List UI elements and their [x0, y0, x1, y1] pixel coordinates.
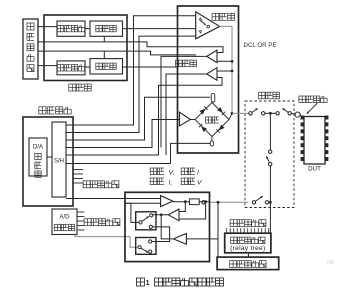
wire PMU input 2 — [125, 202, 161, 204]
wire event pass line A — [38, 42, 223, 53]
level set box 电平设置 — [23, 117, 73, 206]
diode top-right — [217, 107, 223, 113]
timer outer box 定时器 — [44, 15, 127, 81]
junction dot force a — [184, 200, 187, 203]
diode top-left — [199, 109, 205, 115]
label force V measure I 强制V 测量I — [150, 168, 157, 175]
wire switch1 vertical tie — [125, 202, 131, 204]
junction dot relay mid — [269, 112, 272, 115]
junction dot comp1 tap — [231, 60, 234, 63]
svg-text:D/A: D/A — [33, 145, 43, 151]
event generator box 事件发生器 — [23, 19, 38, 79]
relay switch 3 circle a — [269, 150, 272, 153]
sample hold box S/H — [52, 122, 66, 197]
wire sense amp out — [152, 214, 169, 216]
wire TDR vertical — [217, 202, 219, 257]
wire vernier1-formatter1 — [85, 28, 90, 30]
wire event pass line B — [38, 51, 196, 55]
svg-text:DCL OR PE: DCL OR PE — [244, 42, 277, 49]
wire measure amp input — [186, 238, 218, 240]
wire S/H level 1 to driver — [66, 16, 196, 125]
comparator label 比较器 — [176, 60, 183, 67]
relay switch 1 circle b — [262, 112, 265, 115]
junction dot relay bottom — [269, 201, 272, 204]
wire relay mid vertical lower — [269, 166, 271, 202]
wire S/H level 6 join load bottom — [66, 163, 171, 165]
test pin arrow — [307, 103, 317, 113]
svg-text:1: 1 — [146, 280, 150, 287]
wire formatter2 output — [123, 66, 178, 68]
svg-text:S/H: S/H — [54, 159, 64, 165]
switch1 throw circle b — [149, 225, 152, 228]
PMU output terminal circle — [202, 201, 205, 204]
wire PMU input 1 — [66, 198, 161, 200]
wire bridge top to capsule — [211, 101, 214, 103]
caption 图1 测试设备典型框图 — [137, 278, 145, 286]
wire comparator2 input tap — [217, 70, 232, 72]
driver delta symbol — [199, 18, 201, 20]
switch1 common circle — [139, 221, 142, 224]
wire relay mid — [265, 112, 276, 114]
level set label 电平设置 — [39, 107, 46, 114]
switch1 throw circle a — [150, 214, 153, 217]
relay switch 4 circle a — [252, 201, 255, 204]
DUT chip body — [304, 117, 325, 165]
label to other channels 2 至其他通道 — [84, 219, 91, 226]
time vernier box 1 时间微调 — [57, 21, 85, 36]
wire S/H level 2 to driver — [66, 36, 196, 132]
svg-text:V,: V, — [169, 169, 175, 176]
label force I measure V 强制I 测量V — [150, 178, 157, 185]
relay switch 2 circle b — [288, 112, 291, 115]
wire S/H level 5 to comparator 2 — [66, 78, 222, 156]
wire feedback 2 — [179, 202, 206, 219]
label to other channels 1 至其他通道 — [83, 181, 90, 188]
wire driver output — [220, 26, 232, 113]
wire relay mid vertical upper — [269, 113, 271, 150]
formatter box 1 格式化 — [90, 21, 123, 36]
wire pin to relay — [232, 112, 249, 114]
wire switch1 throw b — [152, 227, 170, 242]
wire bridge to pin node — [229, 113, 232, 119]
svg-text:DUT: DUT — [308, 166, 321, 173]
relay switch 1 circle a — [249, 112, 252, 115]
junction dot comp2 tap — [231, 70, 234, 73]
DAC box D/A转换器 — [29, 138, 47, 176]
junction dot sense out — [160, 213, 163, 216]
wire sense down — [161, 215, 173, 239]
svg-text:V: V — [197, 179, 203, 186]
wire relay bottom down to relay tree — [269, 202, 271, 233]
relay switch 4 circle b — [265, 201, 268, 204]
test pin node circle — [295, 112, 300, 117]
TDR box 时域反射计 — [217, 257, 279, 270]
comparator 2 — [207, 68, 217, 81]
wire relay tree to TDR — [247, 253, 249, 257]
PMU box — [125, 192, 210, 261]
relay tree box 继电保护树 — [225, 233, 271, 253]
load bottom current source — [210, 141, 213, 146]
switch2 throw circle b — [149, 250, 152, 253]
wire comparator1 output — [161, 56, 207, 147]
junction dot pin node — [231, 112, 234, 115]
clamp amp triangle — [180, 112, 191, 126]
wire PMU force to relay row — [210, 201, 249, 203]
svg-text:TM: TM — [326, 260, 333, 266]
wire formatter1 output — [123, 28, 196, 30]
comparator 1 — [207, 50, 217, 63]
wire load bottom to S/H level — [171, 143, 211, 163]
driver op-amp 驱动器 — [196, 12, 220, 39]
label to other channels 3 至其他通道 — [230, 220, 237, 227]
junction dot TDR tap — [217, 201, 220, 204]
switch2 throw circle a — [149, 240, 152, 243]
wire DAC to S/H — [47, 156, 52, 158]
driver nabla symbol — [199, 31, 201, 33]
relay label 继电器 — [259, 92, 266, 99]
relay switch 1 lever — [252, 109, 257, 113]
switch2 lever — [141, 248, 148, 252]
PMU switch box 2 — [136, 238, 156, 255]
relay dashed box 继电器 — [245, 101, 294, 208]
junction dot force b — [204, 200, 207, 203]
switch2 common circle — [138, 246, 141, 249]
PMU sense amp — [168, 209, 179, 221]
wire event to vernier1 — [38, 26, 57, 28]
PMU switch box 1 — [136, 212, 156, 230]
wire stub B to formatter2 — [103, 51, 105, 59]
wire bridge bottom to capsule — [211, 137, 213, 141]
PMU force amp — [161, 196, 173, 207]
wire vernier2-formatter2 — [85, 66, 90, 68]
formatter box 2 格式化 — [90, 59, 123, 74]
wire PMU force output — [173, 201, 190, 203]
relay switch 2 lever — [283, 109, 288, 113]
svg-text:I,: I, — [169, 179, 173, 186]
ADC box A/D转换器 — [52, 209, 77, 235]
relay switch 3 circle b — [269, 163, 272, 166]
wire S/H level 4 to clamp amp — [66, 120, 180, 148]
load bridge diamond 负载 — [195, 103, 229, 137]
PMU measure amp — [173, 234, 186, 245]
wire comparator2 output — [166, 74, 207, 155]
diode bottom-right — [219, 125, 225, 131]
time vernier box 2 时间微调 — [57, 61, 85, 75]
wire level to switch1 — [131, 203, 139, 222]
driver wiper circle — [207, 25, 210, 28]
pin electronics box — [178, 6, 239, 153]
relay switch 4 lever — [255, 196, 262, 201]
DUT pins right — [325, 116, 328, 120]
diode bottom-left — [201, 126, 207, 132]
svg-text:I: I — [197, 169, 199, 176]
relay tree comb lines — [226, 228, 228, 233]
test pin label 测试引脚 — [299, 96, 306, 103]
wire relay bottom to junction — [269, 201, 271, 203]
wire stub A to formatter1 — [103, 36, 105, 42]
wire force resistor out — [199, 201, 209, 203]
switch1 lever — [142, 217, 149, 222]
wire relay to test pin node — [291, 112, 295, 115]
wire clamp amp to bridge — [190, 119, 195, 121]
timer label 定时器 — [69, 84, 76, 91]
wire event to vernier2 — [38, 65, 57, 67]
stub lines to other channels 1 — [73, 169, 83, 171]
relay switch 3 lever — [267, 157, 270, 163]
PMU sense resistor — [190, 199, 200, 205]
wire ADC measure line — [75, 235, 138, 248]
stub lines to other channels 2 — [77, 211, 85, 213]
svg-text:(relay tree): (relay tree) — [230, 245, 265, 252]
wire test pin node to DUT — [300, 115, 304, 117]
load top current source — [211, 93, 215, 102]
wire feedback 1 — [179, 202, 185, 212]
wire S/H level 3 to load top source — [66, 97, 210, 140]
driver wiper arrow — [201, 21, 206, 25]
svg-text:A/D: A/D — [59, 215, 70, 221]
driver label 驱动器 — [212, 13, 219, 20]
DUT pins left — [301, 116, 304, 120]
wire comparator1 input tap — [217, 60, 232, 62]
relay switch 2 circle a — [276, 112, 279, 115]
